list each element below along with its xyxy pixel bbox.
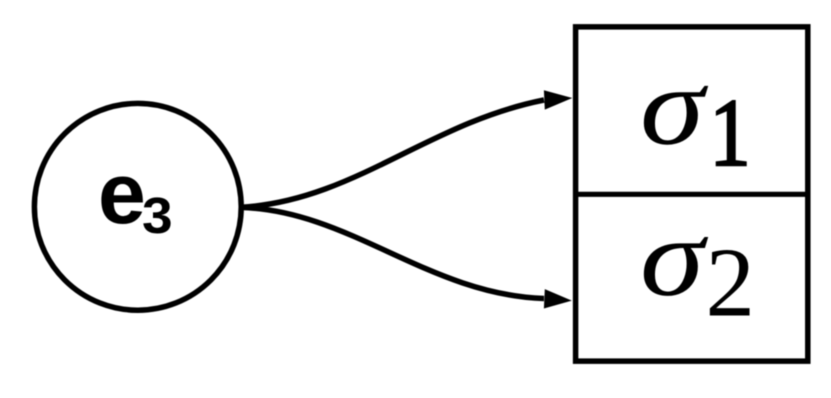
label sigma1 (640, 45, 709, 169)
svg-text:e: e (98, 146, 146, 242)
svg-text:σ: σ (640, 196, 709, 320)
wire: bottom edge curve e3 -> sigma2 (240, 207, 544, 298)
node e3 circle (34, 103, 241, 310)
arrowhead bottom (544, 289, 572, 308)
arrowhead top (544, 90, 572, 109)
indicator box outer rect (576, 27, 808, 361)
label sigma2 (640, 196, 709, 320)
indicator box divider (573, 192, 810, 197)
wire: top edge curve e3 -> sigma1 (240, 100, 544, 207)
svg-text:1: 1 (710, 80, 751, 186)
svg-text:3: 3 (142, 188, 173, 245)
svg-text:2: 2 (706, 229, 756, 338)
svg-text:σ: σ (640, 45, 709, 169)
